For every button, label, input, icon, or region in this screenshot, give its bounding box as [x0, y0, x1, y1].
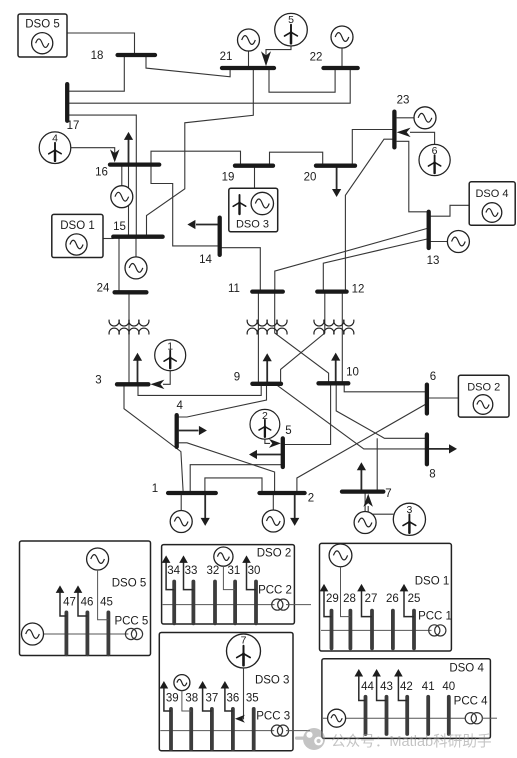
svg-text:20: 20	[304, 172, 317, 184]
svg-text:7: 7	[241, 635, 247, 647]
svg-text:DSO 4: DSO 4	[449, 663, 484, 675]
svg-text:46: 46	[81, 597, 94, 609]
svg-text:DSO 5: DSO 5	[112, 578, 147, 590]
svg-text:1: 1	[152, 483, 158, 495]
svg-text:43: 43	[380, 681, 393, 693]
svg-text:23: 23	[397, 95, 410, 107]
svg-text:1: 1	[167, 340, 173, 352]
svg-text:4: 4	[52, 133, 58, 145]
svg-text:12: 12	[352, 284, 365, 296]
svg-text:DSO 4: DSO 4	[475, 188, 508, 200]
svg-text:5: 5	[288, 14, 294, 26]
svg-text:28: 28	[343, 593, 356, 605]
svg-text:8: 8	[429, 469, 435, 481]
svg-text:17: 17	[67, 120, 80, 132]
svg-text:16: 16	[95, 167, 108, 179]
svg-text:3: 3	[95, 375, 101, 387]
svg-text:31: 31	[228, 565, 241, 577]
svg-text:DSO 1: DSO 1	[60, 220, 95, 232]
svg-text:15: 15	[113, 221, 126, 233]
svg-text:35: 35	[246, 693, 259, 705]
svg-text:44: 44	[361, 681, 374, 693]
svg-text:13: 13	[427, 255, 440, 267]
svg-text:公众号：Matlab科研助手: 公众号：Matlab科研助手	[331, 733, 492, 750]
svg-text:DSO 5: DSO 5	[25, 19, 60, 31]
svg-text:22: 22	[310, 52, 323, 64]
svg-text:32: 32	[207, 565, 220, 577]
svg-text:PCC 4: PCC 4	[454, 696, 488, 708]
svg-text:7: 7	[385, 488, 391, 500]
svg-text:37: 37	[206, 693, 219, 705]
svg-text:2: 2	[308, 493, 314, 505]
svg-text:DSO 2: DSO 2	[257, 548, 292, 560]
svg-text:42: 42	[400, 681, 413, 693]
svg-text:45: 45	[100, 597, 113, 609]
svg-text:14: 14	[199, 254, 212, 266]
svg-text:6: 6	[430, 371, 436, 383]
svg-text:PCC 5: PCC 5	[114, 616, 148, 628]
svg-text:5: 5	[285, 425, 291, 437]
svg-text:40: 40	[442, 681, 455, 693]
svg-text:29: 29	[326, 593, 339, 605]
svg-text:3: 3	[406, 504, 412, 516]
svg-text:DSO 3: DSO 3	[255, 675, 290, 687]
svg-text:38: 38	[185, 693, 198, 705]
svg-text:9: 9	[234, 372, 240, 384]
svg-text:27: 27	[365, 593, 378, 605]
svg-text:39: 39	[166, 693, 179, 705]
svg-text:36: 36	[227, 693, 240, 705]
svg-text:18: 18	[91, 50, 104, 62]
svg-text:2: 2	[262, 410, 268, 422]
svg-text:PCC 2: PCC 2	[258, 585, 292, 597]
svg-text:34: 34	[167, 565, 180, 577]
svg-text:25: 25	[408, 593, 421, 605]
svg-text:26: 26	[386, 593, 399, 605]
svg-text:6: 6	[432, 145, 438, 157]
svg-text:10: 10	[346, 367, 359, 379]
svg-text:PCC 1: PCC 1	[418, 611, 452, 623]
svg-text:DSO 1: DSO 1	[415, 576, 450, 588]
svg-text:24: 24	[97, 283, 110, 295]
svg-text:21: 21	[220, 51, 233, 63]
svg-text:30: 30	[248, 565, 261, 577]
svg-text:11: 11	[228, 283, 240, 295]
svg-text:DSO 3: DSO 3	[236, 219, 269, 231]
svg-text:41: 41	[422, 681, 435, 693]
svg-text:47: 47	[63, 597, 76, 609]
svg-text:4: 4	[176, 400, 183, 412]
svg-text:19: 19	[222, 172, 235, 184]
svg-text:PCC 3: PCC 3	[256, 711, 290, 723]
svg-text:33: 33	[185, 565, 198, 577]
svg-text:DSO 2: DSO 2	[467, 382, 500, 394]
